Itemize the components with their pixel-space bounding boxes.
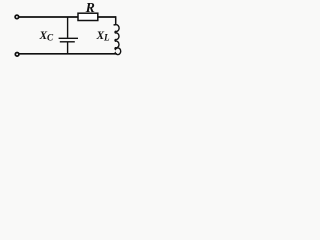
svg-text:XC: XC (39, 30, 54, 42)
svg-text:R: R (85, 0, 95, 15)
svg-text:XL: XL (96, 30, 110, 42)
